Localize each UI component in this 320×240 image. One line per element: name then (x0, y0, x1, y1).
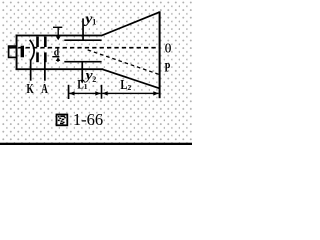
cathode arc (30, 40, 34, 61)
flare bottom diagonal (103, 69, 160, 88)
heater bump box (9, 46, 17, 57)
grid electrode lower (36, 52, 39, 62)
grid electrode upper (36, 37, 39, 47)
bottom window border band (0, 143, 192, 145)
svg-text:L: L (120, 77, 127, 92)
anode electrode lower (44, 52, 47, 62)
shared middle tick (101, 85, 103, 99)
y1 lead wire (82, 18, 84, 40)
top deflection plate (64, 39, 101, 41)
flare top diagonal (101, 12, 159, 36)
svg-text:2: 2 (92, 75, 96, 84)
deflected beam dashed line (88, 50, 159, 75)
tube top wall (16, 35, 102, 37)
cathode bar (21, 46, 24, 58)
caption character tu (figure) (57, 115, 68, 126)
A lead wire (44, 61, 46, 80)
d dimension up arrow (56, 57, 61, 61)
tube left wall (16, 35, 18, 71)
K lead wire (30, 60, 32, 81)
screen line (159, 11, 161, 98)
svg-text:1: 1 (84, 82, 88, 91)
d dimension lower tick (52, 56, 59, 57)
svg-text:O: O (165, 42, 172, 57)
axis dashed line (9, 47, 18, 49)
svg-text:P: P (165, 61, 171, 75)
svg-text:2: 2 (128, 83, 132, 92)
anode electrode upper (44, 37, 47, 47)
svg-text:A: A (41, 81, 48, 96)
d dimension top tick (53, 27, 62, 28)
bottom deflection plate (64, 61, 101, 63)
svg-text:1: 1 (92, 17, 96, 26)
tube bottom wall (16, 68, 104, 70)
L1 dimension line (69, 93, 101, 94)
y2 lead wire (81, 62, 83, 81)
svg-text:K: K (27, 81, 35, 96)
d dimension down arrow (58, 27, 59, 37)
L1 left tick (68, 85, 70, 99)
L2 dimension line (102, 93, 158, 94)
svg-text:1-66: 1-66 (73, 110, 103, 129)
